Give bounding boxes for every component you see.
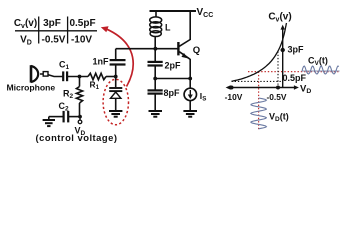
- svg-text:L: L: [165, 23, 171, 33]
- svg-text:Microphone: Microphone: [7, 83, 56, 93]
- svg-text:VD: VD: [20, 35, 32, 47]
- svg-text:3pF: 3pF: [43, 18, 61, 29]
- svg-text:-0.5V: -0.5V: [266, 92, 286, 102]
- svg-text:1nF: 1nF: [93, 56, 110, 66]
- svg-text:R1: R1: [90, 80, 100, 92]
- svg-text:0.5pF: 0.5pF: [69, 18, 95, 29]
- svg-text:C2: C2: [59, 101, 70, 113]
- svg-text:R2: R2: [63, 89, 74, 101]
- svg-text:2pF: 2pF: [165, 60, 182, 70]
- svg-text:Cv(v): Cv(v): [268, 12, 291, 24]
- svg-text:C1: C1: [59, 60, 70, 72]
- svg-text:(control voltage): (control voltage): [36, 132, 118, 143]
- svg-text:CV(t): CV(t): [308, 56, 328, 68]
- svg-text:-0.5V: -0.5V: [42, 35, 66, 46]
- svg-text:-10V: -10V: [225, 92, 243, 102]
- svg-text:-10V: -10V: [71, 35, 92, 46]
- svg-text:3pF: 3pF: [288, 45, 305, 55]
- svg-text:VD(t): VD(t): [269, 112, 289, 124]
- svg-text:0.5pF: 0.5pF: [283, 73, 307, 83]
- svg-text:Q: Q: [193, 45, 200, 56]
- svg-text:VD: VD: [300, 84, 311, 96]
- svg-text:Cv(v): Cv(v): [14, 18, 37, 30]
- svg-text:IS: IS: [200, 91, 207, 103]
- svg-text:8pF: 8pF: [164, 88, 181, 98]
- svg-text:VCC: VCC: [197, 7, 214, 19]
